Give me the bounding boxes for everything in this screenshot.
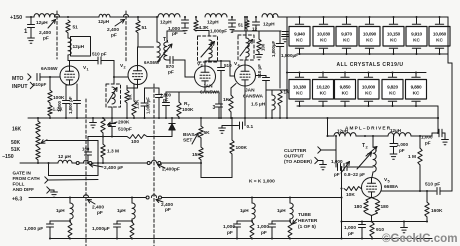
svg-text:510: 510 (224, 63, 232, 68)
svg-text:160K: 160K (431, 208, 443, 214)
svg-text:pF: pF (227, 230, 233, 236)
crystal Y7 10,060 KC (439, 17, 441, 24)
svg-text:KC: KC (320, 91, 327, 96)
svg-text:12µH: 12µH (36, 20, 48, 26)
svg-text:10,030: 10,030 (317, 31, 331, 36)
svg-text:pF: pF (111, 33, 117, 39)
svg-text:1µH: 1µH (277, 208, 286, 213)
capacitor 510 coupling V4 (220, 61, 222, 67)
junction on main bus (265, 117, 267, 119)
svg-text:HEATER: HEATER (298, 218, 318, 224)
svg-text:12µH: 12µH (390, 128, 402, 133)
svg-text:100K: 100K (236, 145, 248, 151)
inductor L5 12uH on +150 rail (262, 14, 278, 17)
svg-text:SET: SET (183, 138, 192, 144)
junction crystal Y3 top (345, 16, 347, 18)
svg-text:6AS6W: 6AS6W (41, 66, 58, 72)
junction on main bus (200, 117, 202, 119)
svg-text:12µH: 12µH (263, 22, 275, 28)
junction crystal Y7 bottom (438, 53, 440, 55)
wire +150 rail segment 3 (110, 16, 158, 18)
junction on main bus (165, 117, 167, 119)
connector circle c (147, 162, 150, 165)
inductor 12uH driver a (334, 133, 356, 136)
ground and-diff (51, 192, 58, 197)
svg-text:1,000µF: 1,000µF (92, 226, 110, 232)
transformer T1 primary (157, 42, 160, 62)
feedthrough +6.3 shield4 (151, 195, 156, 198)
svg-text:9,940: 9,940 (294, 31, 305, 36)
arrow MTO input 2 (30, 82, 33, 88)
junction on bottom bus (340, 237, 342, 239)
wire V3 tank to supply node (208, 31, 210, 37)
capacitor 510pF bias (111, 118, 113, 123)
junction x98 rail (97, 162, 99, 164)
svg-text:100K: 100K (182, 107, 194, 113)
junction on main bus (133, 117, 135, 119)
svg-text:0.8–22 pF: 0.8–22 pF (344, 172, 365, 177)
wire V1 cathode to bypass (66, 84, 70, 86)
junction at x273 (272, 16, 274, 18)
resistor R 4.3K from rail (195, 16, 197, 18)
svg-text:FOLL: FOLL (13, 182, 25, 187)
svg-text:51: 51 (142, 25, 148, 31)
svg-text:50K: 50K (11, 140, 21, 146)
junction plate line 510 tap (220, 60, 222, 62)
wire right edge vertical (451, 63, 453, 191)
capacitor C3 1000pF to ground (231, 17, 233, 20)
svg-text:1,800µF: 1,800µF (271, 40, 276, 57)
svg-text:(TO ADDER): (TO ADDER) (284, 159, 312, 165)
feedthrough +6.3 shield3 label (88, 200, 96, 205)
wire crystal bank top bus (287, 16, 448, 18)
junction on bottom bus (289, 237, 291, 239)
wire -150 rail left (20, 162, 58, 164)
heater cell 2 (131, 196, 133, 198)
wire T1 primary top to rail (156, 16, 158, 18)
svg-text:FROM CATH: FROM CATH (13, 176, 41, 181)
junction on main bus (126, 117, 128, 119)
adjustable inductor V3 tank (209, 40, 212, 58)
wire bottom return bus (50, 238, 432, 240)
junction on bottom bus (371, 237, 373, 239)
feedthrough capacitor 2400pF at shield 1 (54, 14, 59, 17)
svg-text:9,850: 9,850 (340, 84, 351, 89)
svg-text:1.3 M: 1.3 M (107, 149, 119, 155)
svg-text:JAN: JAN (245, 88, 255, 94)
crystal Y8 10,180 KC (299, 73, 301, 77)
capacitor 510pF input coupling (37, 74, 40, 81)
junction crystal Y13 top (415, 71, 417, 73)
svg-text:12 µH: 12 µH (58, 154, 71, 160)
crystal Y2 10,030 KC (323, 17, 325, 24)
svg-text:9,970: 9,970 (341, 31, 352, 36)
feedthrough +6.3 label (156, 200, 163, 203)
capacitor C2 1000pF to ground (184, 17, 186, 20)
svg-text:6688A: 6688A (384, 184, 399, 190)
resistor 200K label with arrow (108, 122, 118, 125)
svg-text:KC: KC (413, 38, 420, 43)
wire gate line (48, 179, 98, 182)
pot 5K wiper arrow (192, 133, 198, 144)
dashed box V4 plate tank (238, 35, 254, 60)
svg-text:100: 100 (131, 139, 139, 145)
junction on main bus (171, 117, 173, 119)
ground on main bus (92, 118, 94, 122)
pot 50K (36, 134, 40, 147)
capacitor V2 plate bypass (158, 88, 160, 94)
wire V4 tank to plate (245, 57, 247, 60)
wire crystal link right (447, 54, 449, 63)
svg-text:1µH: 1µH (117, 208, 126, 213)
resistor divider 16K (37, 118, 39, 121)
tube V3 JAN 6AN5WA (195, 66, 216, 87)
junction clutter caps (340, 166, 342, 168)
svg-text:180: 180 (354, 204, 362, 210)
junction on main bus (271, 117, 273, 119)
wire crystal bottom-row lower bus (297, 105, 438, 107)
crystal Y5 10,150 KC (393, 17, 395, 24)
junction crystal Y7 top (438, 16, 440, 18)
junction crystal Y10 bottom (344, 105, 346, 107)
svg-text:pF: pF (172, 31, 178, 37)
svg-text:51: 51 (238, 23, 244, 28)
resistor 51K (36, 147, 40, 160)
junction crystal output on bus (437, 117, 439, 119)
connector circle b (89, 162, 92, 165)
ground driver out (442, 140, 449, 145)
wire coupling cap to V2 grid (101, 60, 114, 62)
wire V3 cathode bus (204, 87, 206, 92)
junction crystal Y2 bottom (322, 53, 324, 55)
resistor 180 b (372, 198, 378, 201)
svg-text:16K: 16K (12, 127, 22, 133)
wire and-diff to ground (50, 189, 54, 191)
shield partition 3 (dashed) (85, 99, 87, 246)
arrow MTO input (28, 74, 31, 80)
svg-text:1.2K: 1.2K (135, 99, 140, 109)
svg-text:15K: 15K (192, 152, 201, 158)
svg-text:ALL CRYSTALS CR19/U: ALL CRYSTALS CR19/U (336, 62, 403, 68)
transformer T2 arrow 2 (366, 147, 377, 157)
crystal Y3 9,970 KC (346, 17, 348, 24)
resistor 1.2K V1 cathode (49, 103, 51, 105)
heater cell 4 (289, 196, 291, 198)
svg-text:(1 OF 5): (1 OF 5) (298, 224, 316, 230)
svg-text:KC: KC (365, 91, 372, 96)
feedthrough -150 shield3 (83, 160, 88, 163)
wire V1 plate tank top (67, 33, 69, 38)
wire bias node line (88, 136, 127, 138)
svg-text:CLUTTER: CLUTTER (284, 148, 307, 154)
svg-text:KC: KC (343, 38, 350, 43)
junction on main bus (178, 117, 180, 119)
svg-text:510 pF: 510 pF (257, 64, 262, 78)
wire crystal top-row lower bus (297, 53, 448, 55)
transformer T1 secondary (164, 42, 167, 60)
junction on main bus (65, 117, 67, 119)
junction crystal Y5 top (392, 16, 394, 18)
svg-text:pF: pF (399, 148, 405, 153)
wire 870pF to V3 grid (174, 59, 186, 61)
capacitor 12pF (stage 4) (255, 16, 257, 18)
junction on +150 rail at C1 (30, 16, 32, 18)
svg-text:KC: KC (296, 38, 303, 43)
svg-text:1,800 pF: 1,800 pF (68, 96, 73, 114)
junction on main bus (279, 117, 281, 119)
svg-text:+150: +150 (10, 15, 22, 21)
dashed box adjustable inductor V2 grid tank (106, 84, 121, 107)
inductor L2 12uH on +150 rail (99, 14, 110, 17)
ground under 100 resistor (258, 52, 260, 54)
junction on main bus (326, 117, 328, 119)
resistor 1K V4 cathode (231, 84, 236, 89)
heater cell 1 (1uH choke, 1000pF, heater) (69, 196, 71, 198)
junction on main bus (143, 117, 145, 119)
svg-text:INPUT: INPUT (12, 84, 28, 90)
wire -150 to connector (72, 162, 76, 164)
junction on main bus (92, 117, 94, 119)
junction on bottom bus (251, 237, 253, 239)
junction on bottom bus (49, 237, 51, 239)
junction crystal Y9 top (322, 71, 324, 73)
svg-text:2,400pF: 2,400pF (162, 166, 180, 172)
feedthrough capacitor 2400pF at shield 2 (123, 14, 128, 17)
wire driver line to output cap (431, 133, 433, 136)
svg-text:1µH: 1µH (240, 208, 249, 213)
svg-text:AMPL–DRIVER: AMPL–DRIVER (345, 126, 391, 131)
junction on bottom bus (116, 237, 118, 239)
wire cathode join (371, 216, 373, 222)
arrow gate in (45, 177, 48, 183)
svg-text:1.5 µH: 1.5 µH (251, 102, 266, 108)
svg-text:1,000: 1,000 (397, 142, 409, 147)
junction wiper rail (47, 162, 49, 164)
wire +150 rail segment right to crystal bank (278, 16, 448, 18)
svg-text:51K: 51K (11, 147, 21, 153)
junction crystal Y13 bottom (415, 105, 417, 107)
resistor 3K V2 (126, 86, 128, 91)
svg-text:pF: pF (334, 172, 340, 177)
junction on main bus (37, 117, 39, 119)
wire main ground bus (28, 117, 438, 119)
wire output to right edge (440, 190, 452, 192)
wire V4 screen cap (256, 75, 267, 77)
junction on main bus (111, 117, 113, 119)
connector circle d (158, 162, 161, 165)
feedthrough 2400pF label with arrow (48, 20, 56, 29)
wire bias node to diode (147, 136, 172, 138)
svg-text:pF: pF (425, 141, 431, 146)
wire V1 plate node (67, 55, 69, 61)
capacitor 510pF output (437, 188, 440, 195)
tube V5 6688A (362, 178, 382, 198)
resistor R7 100K (178, 92, 180, 102)
resistor 100 osc damp (258, 31, 260, 39)
wire osc injection to bank (280, 89, 287, 91)
junction on bottom bus (131, 237, 133, 239)
junction 1M at plate line (419, 190, 421, 192)
resistor 100 bias series (127, 135, 147, 139)
junction crystal Y11 bottom (367, 105, 369, 107)
svg-text:3: 3 (201, 64, 203, 68)
wire V4 tank to rail (244, 17, 246, 31)
junction 15K bottom (200, 162, 202, 164)
wire +6.3 rail right (162, 197, 342, 199)
svg-text:1,000: 1,000 (223, 224, 235, 230)
svg-text:7: 7 (188, 103, 190, 107)
junction crystal Y4 top (368, 16, 370, 18)
ground driver bypass (390, 154, 397, 159)
tube V1 6AS6W (60, 66, 79, 85)
inductor 1.5uH (271, 90, 273, 95)
capacitor 3 V3 (218, 92, 220, 104)
svg-text:10,150: 10,150 (387, 31, 401, 36)
crystal Y6 9,910 KC (416, 17, 418, 24)
ground for 0.1 cap (221, 126, 223, 128)
junction crystal Y10 top (344, 71, 346, 73)
inductor L3 12uH on +150 rail (158, 14, 180, 17)
resistor 1M driver grid (419, 136, 421, 148)
junction on main bus (102, 117, 104, 119)
junction on main bus (158, 117, 160, 119)
capacitor 100 bias (87, 137, 89, 152)
svg-text:GATE IN: GATE IN (13, 171, 32, 176)
svg-text:870: 870 (166, 64, 174, 70)
ground at stage4 node (282, 37, 289, 42)
svg-text:510pF: 510pF (33, 82, 46, 87)
crystal Y12 9,820 KC (392, 73, 394, 77)
wire osc output node (266, 89, 280, 91)
transformer T1 tuning arrow (158, 44, 172, 61)
junction crystal Y6 bottom (415, 53, 417, 55)
junction on main bus (230, 117, 232, 119)
junction crystal Y12 top (391, 71, 393, 73)
junction crystal Y8 top (298, 71, 300, 73)
svg-text:+6.3: +6.3 (12, 197, 22, 203)
resistor 160K (426, 191, 428, 202)
junction on main bus (437, 117, 439, 119)
connector circle e (146, 196, 149, 199)
capacitor 1000pF V5 cathode (361, 222, 363, 225)
junction on main bus (244, 117, 246, 119)
svg-text:6AN5WA: 6AN5WA (243, 94, 264, 100)
resistor 100K clutter return (231, 118, 233, 140)
resistor 180 a (366, 198, 372, 201)
svg-text:100: 100 (261, 43, 266, 51)
svg-text:10K: 10K (346, 192, 355, 198)
wire crystal bank right link (447, 17, 449, 54)
junction at C2 (184, 16, 186, 18)
junction bias node (102, 135, 104, 137)
junction on bottom bus (403, 237, 405, 239)
heater cell 3 (251, 196, 253, 198)
resistor 1.3M (101, 144, 105, 158)
capacitor 1800pF V3 (165, 92, 167, 102)
svg-text:9,910: 9,910 (411, 31, 422, 36)
wire driver plate line left (328, 135, 335, 137)
svg-text:5K: 5K (204, 130, 211, 136)
crystal Y11 10,000 KC (368, 73, 370, 77)
svg-text:10,090: 10,090 (363, 31, 377, 36)
capacitor C1 (1) from +150 rail (30, 17, 32, 24)
resistor 1K osc (278, 90, 282, 106)
transformer T2 winding (373, 147, 376, 172)
svg-text:OUTPUT: OUTPUT (284, 154, 304, 160)
svg-text:9,820: 9,820 (387, 84, 398, 89)
wire -150 rail right (161, 162, 201, 164)
svg-text:5: 5 (388, 179, 390, 183)
wire V2 grid tank (113, 77, 115, 84)
svg-text:K = K 1,000: K = K 1,000 (249, 179, 275, 185)
wire clutter tap (321, 149, 336, 151)
ground below C2 (182, 28, 189, 33)
svg-text:12µH: 12µH (207, 20, 219, 26)
tube V4 JAN 6AN5WA (235, 65, 256, 86)
wire V5 cathode line (342, 221, 428, 223)
wire driver plate line mid (356, 135, 388, 137)
ground V5 bias (403, 222, 405, 228)
svg-text:1,000 pF: 1,000 pF (24, 226, 43, 232)
wire to V4 grid (229, 61, 231, 76)
wire +150 rail segment 1 (26, 16, 34, 18)
crystal Y4 10,090 KC (369, 17, 371, 24)
junction at V4 plate feed (244, 16, 246, 18)
ground to-adder (320, 165, 327, 170)
junction crystal Y9 bottom (322, 105, 324, 107)
capacitor 1000pF V2 (144, 88, 146, 103)
svg-text:KC: KC (320, 38, 327, 43)
svg-text:10,000: 10,000 (362, 84, 376, 89)
junction on main bus (76, 117, 78, 119)
svg-text:pF: pF (168, 70, 174, 76)
svg-text:0.1: 0.1 (247, 124, 254, 130)
feedthrough -150 shield4 (151, 160, 156, 163)
wire T2 top (372, 136, 374, 147)
svg-text:1,000: 1,000 (331, 159, 343, 164)
svg-text:pF: pF (43, 36, 49, 42)
svg-text:1,000 pF: 1,000 pF (146, 97, 151, 114)
wire to-adder ground lead (318, 160, 323, 162)
junction crystal Y5 bottom (392, 53, 394, 55)
junction crystal Y8 bottom (298, 105, 300, 107)
adjustable inductor V4 tank (246, 38, 249, 57)
wire -150 rail middle (92, 162, 147, 164)
junction on main bus (220, 117, 222, 119)
svg-text:pF: pF (348, 231, 354, 237)
resistor 200K (101, 118, 105, 133)
tube V2 6AS6W (128, 66, 147, 85)
wire V3 plate line (204, 61, 206, 66)
wire T1 secondary top (166, 31, 168, 42)
junction crystal Y1 top (298, 16, 300, 18)
svg-text:MTO: MTO (12, 76, 23, 82)
svg-text:KC: KC (342, 91, 349, 96)
wire clutter coupling line (335, 150, 337, 167)
junction on main bus (231, 117, 233, 119)
feedthrough -150 label 2 (158, 165, 166, 169)
feedthrough +6.3 shield3 (83, 195, 88, 198)
svg-text:12µH: 12µH (73, 44, 85, 50)
wire T2 to V5 plate (372, 172, 373, 177)
junction on +150 rail at L2 tank (67, 16, 69, 18)
svg-text:pF: pF (97, 210, 103, 216)
feedthrough -150 label (90, 165, 104, 168)
junction V1 grid (49, 76, 51, 78)
inductor L1 12uH on +150 rail (34, 14, 55, 17)
svg-text:51: 51 (73, 25, 79, 31)
capacitor 1800pF stage4 (279, 31, 281, 43)
